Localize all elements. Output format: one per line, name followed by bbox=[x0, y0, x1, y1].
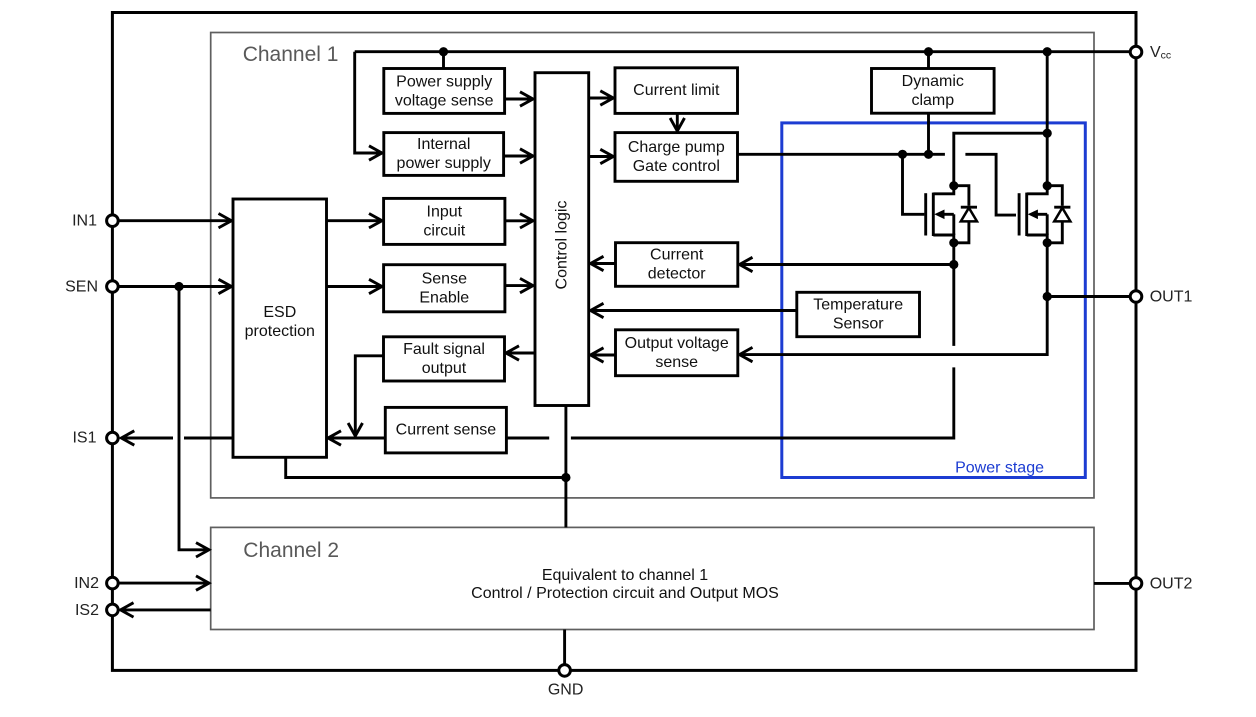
svg-text:clamp: clamp bbox=[911, 92, 954, 109]
wire control logic to current limit bbox=[589, 97, 614, 100]
wire VCC to dynamic clamp bbox=[927, 52, 930, 69]
block ESD protection bbox=[233, 199, 327, 457]
svg-text:Gate control: Gate control bbox=[633, 158, 720, 175]
terminal OUT2 bbox=[1130, 578, 1142, 590]
svg-text:GND: GND bbox=[548, 682, 584, 699]
wire internal power supply to control logic bbox=[504, 155, 533, 158]
junction dot VCC / Q2 drain line bbox=[1043, 47, 1052, 56]
outer IC boundary box bbox=[112, 13, 1136, 671]
block Sense Enable bbox=[384, 265, 505, 312]
junction dot gate line dynamic clamp bbox=[924, 150, 933, 159]
wire voltage sense to control logic bbox=[505, 98, 533, 101]
wire current limit to charge pump bbox=[676, 113, 679, 131]
junction dot Q2 source bbox=[1043, 238, 1052, 247]
svg-text:detector: detector bbox=[648, 266, 706, 283]
svg-text:Temperature: Temperature bbox=[813, 297, 903, 314]
svg-text:circuit: circuit bbox=[423, 222, 465, 239]
svg-text:Charge pump: Charge pump bbox=[628, 139, 725, 156]
wire gate branch to Q1 gate bbox=[903, 154, 925, 214]
svg-text:OUT1: OUT1 bbox=[1150, 289, 1193, 306]
svg-text:OUT2: OUT2 bbox=[1150, 575, 1193, 592]
wire SEN to ESD protection bbox=[119, 285, 232, 288]
svg-text:Sense: Sense bbox=[422, 270, 467, 287]
wire channel 2 to GND bbox=[563, 630, 566, 665]
terminal IN1 bbox=[107, 215, 119, 227]
svg-text:Current: Current bbox=[650, 247, 704, 264]
svg-text:Equivalent to channel 1: Equivalent to channel 1 bbox=[542, 567, 708, 584]
wire current sense to ESD protection bbox=[328, 437, 385, 440]
svg-text:IN1: IN1 bbox=[72, 213, 97, 230]
MOSFET Q1 bbox=[926, 186, 954, 243]
junction dot Q2 drain bbox=[1043, 181, 1052, 190]
wire gate line hop to Q2 gate bbox=[965, 154, 1016, 215]
junction dot VCC / dynamic clamp bbox=[924, 47, 933, 56]
terminal VCC bbox=[1130, 46, 1142, 58]
power stage box (blue) bbox=[782, 123, 1086, 478]
svg-text:Enable: Enable bbox=[419, 289, 469, 306]
junction dot Q1 drain bbox=[949, 181, 958, 190]
wire Q1 source down (above hop) bbox=[952, 243, 955, 346]
wire channel 2 to IS2 bbox=[121, 608, 211, 611]
channel 2 block bbox=[211, 527, 1094, 629]
wire VCC down to Q2 drain bbox=[1046, 52, 1049, 186]
svg-text:Fault signal: Fault signal bbox=[403, 341, 485, 358]
channel 1 block bbox=[211, 33, 1094, 498]
wire charge pump output gate line (left of hop) bbox=[738, 153, 945, 156]
svg-text:ESD: ESD bbox=[263, 304, 296, 321]
terminal GND bbox=[559, 665, 571, 677]
wire dynamic clamp to gate line bbox=[927, 113, 930, 154]
block Output voltage sense bbox=[616, 330, 738, 376]
svg-text:Sensor: Sensor bbox=[833, 316, 884, 333]
block Control logic bbox=[535, 73, 589, 406]
junction dot VCC / voltage sense bbox=[439, 47, 448, 56]
svg-text:protection: protection bbox=[245, 323, 315, 340]
terminal OUT1 bbox=[1130, 291, 1142, 303]
junction dot SEN branch bbox=[174, 282, 183, 291]
svg-text:Dynamic: Dynamic bbox=[902, 73, 964, 90]
svg-text:Current sense: Current sense bbox=[396, 422, 497, 439]
block Power supply voltage sense bbox=[384, 69, 505, 114]
wire control logic to charge pump bbox=[589, 155, 614, 158]
wire current detector to control logic bbox=[591, 262, 616, 265]
wire ESD bottom to channel junction bbox=[286, 457, 566, 477]
svg-text:Power supply: Power supply bbox=[396, 73, 492, 90]
body diode D2 bbox=[1047, 186, 1070, 243]
wire fault signal output joins current sense line bbox=[355, 356, 383, 436]
block Charge pump Gate control bbox=[615, 133, 738, 182]
wire ESD to IS1 (right of hop) bbox=[184, 437, 232, 440]
wire IN2 to channel 2 bbox=[118, 582, 209, 585]
junction dot Q1 drain link bbox=[1043, 129, 1052, 138]
block Current sense bbox=[385, 407, 506, 453]
svg-text:Output voltage: Output voltage bbox=[625, 335, 729, 352]
block Fault signal output bbox=[384, 337, 505, 381]
wire temperature sensor to control logic bbox=[591, 309, 797, 312]
svg-text:Control logic: Control logic bbox=[553, 201, 570, 290]
junction dot ESD / control logic drop bbox=[561, 473, 570, 482]
svg-text:Power stage: Power stage bbox=[955, 459, 1044, 476]
wire ESD to input circuit bbox=[327, 219, 383, 222]
svg-text:Current limit: Current limit bbox=[633, 82, 720, 99]
block Current limit bbox=[615, 68, 738, 114]
wire IN1 to ESD protection bbox=[119, 219, 232, 222]
wire VCC to power supply voltage sense bbox=[442, 52, 445, 69]
body diode D1 bbox=[954, 186, 977, 243]
wire ESD to sense enable bbox=[327, 285, 383, 288]
block Internal power supply bbox=[384, 133, 504, 176]
wire Q2 source to OUT1 node bbox=[1046, 243, 1049, 297]
wire Q1 drain link bbox=[954, 133, 1047, 186]
wire ESD to IS1 arrow into pin bbox=[121, 437, 173, 440]
svg-text:sense: sense bbox=[655, 354, 698, 371]
MOSFET Q2 bbox=[1019, 186, 1047, 243]
svg-text:output: output bbox=[422, 360, 467, 377]
svg-text:IS1: IS1 bbox=[72, 429, 96, 446]
wire SEN branch down to channel 2 bbox=[179, 287, 209, 550]
svg-text:IN2: IN2 bbox=[74, 575, 99, 592]
wire control logic to fault signal output bbox=[506, 352, 535, 355]
block Current detector bbox=[616, 243, 738, 287]
svg-text:SEN: SEN bbox=[65, 279, 98, 296]
wire VCC bus (top) bbox=[355, 50, 1130, 53]
svg-text:power supply: power supply bbox=[397, 155, 491, 172]
wire VCC to internal power supply bbox=[355, 52, 382, 153]
junction dot Q1 source / current detector tap bbox=[949, 260, 958, 269]
svg-text:Channel 1: Channel 1 bbox=[243, 43, 339, 66]
wire Q1 source down to current sense (below hop) bbox=[571, 367, 954, 438]
junction dot Q1 source bbox=[949, 238, 958, 247]
block Input circuit bbox=[384, 198, 505, 244]
wire output voltage sense to control logic bbox=[591, 354, 616, 357]
junction dot gate line Q1 branch bbox=[898, 150, 907, 159]
wire OUT1 node to output voltage sense bbox=[740, 297, 1048, 355]
terminal IS1 bbox=[107, 432, 119, 444]
wire current detector input bbox=[740, 263, 954, 266]
svg-text:Channel 2: Channel 2 bbox=[243, 539, 339, 562]
svg-text:Internal: Internal bbox=[417, 136, 470, 153]
svg-text:voltage sense: voltage sense bbox=[395, 92, 494, 109]
svg-text:Input: Input bbox=[427, 203, 463, 220]
terminal SEN bbox=[107, 281, 119, 293]
terminal IS2 bbox=[107, 604, 119, 616]
wire control logic down to channel 2 bbox=[564, 406, 567, 528]
block Temperature Sensor bbox=[797, 292, 920, 336]
wire sense enable to control logic bbox=[505, 284, 533, 287]
wire input circuit to control logic bbox=[505, 219, 533, 222]
terminal IN2 bbox=[107, 577, 119, 589]
wire OUT2 bbox=[1094, 582, 1130, 585]
block Dynamic clamp bbox=[872, 69, 995, 114]
wire current sense line (left of hop) bbox=[506, 437, 549, 440]
svg-text:IS2: IS2 bbox=[75, 602, 99, 619]
junction dot OUT1 node bbox=[1043, 292, 1052, 301]
wire OUT1 bbox=[1047, 295, 1130, 298]
svg-text:Control / Protection circuit a: Control / Protection circuit and Output … bbox=[471, 585, 779, 602]
